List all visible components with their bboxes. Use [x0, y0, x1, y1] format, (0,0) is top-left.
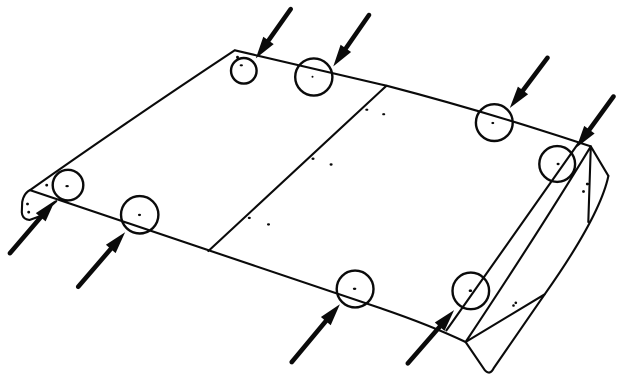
center dot circle C6	[138, 214, 141, 216]
arrow A8 head	[435, 310, 454, 331]
arrow A2 head	[333, 45, 351, 67]
panel top edge	[235, 50, 591, 146]
arrow A5 shaft	[10, 216, 42, 254]
arrow A4 shaft	[588, 97, 613, 132]
arrow A6 head	[106, 232, 125, 253]
flange outer edge	[466, 176, 609, 373]
seam dot pair 2b	[330, 163, 333, 165]
arrow A8 shaft	[408, 325, 441, 363]
circle C1	[231, 58, 257, 84]
center dot circle C4	[557, 163, 560, 165]
flange hole dot a	[586, 183, 589, 186]
arrow A4 head	[577, 126, 595, 148]
left tab	[22, 190, 56, 220]
center dot circle C3	[491, 122, 494, 124]
arrow A6 shaft	[78, 247, 112, 286]
seam dot pair 3a	[248, 217, 251, 219]
crease C1	[588, 146, 591, 222]
circle C2	[295, 58, 332, 95]
circle C8	[453, 273, 490, 310]
tab hole dot b	[27, 211, 30, 214]
hole dot near top corner	[236, 56, 239, 59]
seam dot pair 1b	[382, 113, 385, 115]
arrow A7 head	[321, 304, 340, 325]
seam dot pair 1a	[365, 109, 368, 111]
circle C4	[539, 146, 575, 182]
fold line F1	[446, 142, 579, 330]
center dot circle C7	[353, 288, 356, 290]
hole dot near left corner	[45, 184, 48, 187]
arrow A3 head	[510, 87, 528, 108]
center dot circle C5	[65, 185, 68, 187]
arrow A2 shaft	[345, 15, 369, 50]
circle C3	[476, 104, 513, 141]
circle C7	[337, 271, 374, 308]
arrow A1 head	[256, 37, 274, 59]
flange hole dot d	[512, 304, 515, 307]
seam dot pair 2a	[312, 158, 315, 160]
seam dot pair 3b	[267, 223, 270, 225]
center dot circle C1	[240, 64, 243, 66]
arrow A7 shaft	[292, 320, 327, 363]
arrow A5 head	[36, 201, 55, 222]
center dot circle C8	[469, 289, 472, 292]
fold line F2	[466, 146, 591, 342]
circle C5	[53, 170, 84, 201]
seam line	[208, 86, 386, 251]
panel bottom edge	[30, 190, 466, 342]
panel left edge	[30, 50, 235, 190]
circle C6	[121, 196, 158, 233]
arrow A1 shaft	[267, 9, 290, 42]
arrow A3 shaft	[522, 58, 548, 92]
center dot circle C2	[312, 76, 314, 78]
right tip edge	[591, 146, 609, 176]
flange hole dot b	[582, 190, 585, 193]
flange hole dot c	[515, 302, 518, 305]
diagonal D	[466, 294, 545, 342]
tab hole dot a	[26, 203, 29, 206]
